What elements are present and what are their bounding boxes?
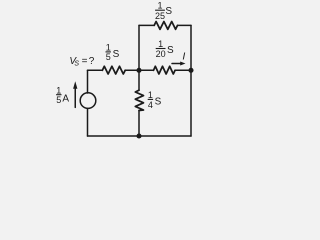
resistor 1/20 S (horizontal zigzag): [154, 66, 176, 74]
svg-text:A: A: [62, 93, 69, 104]
label Vs = ?: [69, 56, 94, 67]
label 1/5 S (value of R1): [106, 43, 120, 62]
svg-text:1: 1: [148, 90, 153, 100]
resistor 1/5 S (horizontal zigzag): [102, 66, 125, 74]
wire left vertical upper (source top lead): [87, 70, 89, 93]
node C junction dot (bottom): [136, 133, 141, 138]
svg-text:5: 5: [56, 95, 61, 105]
svg-text:S: S: [74, 61, 79, 68]
wire middle horizontal between node A and R(1/20): [139, 69, 154, 71]
current source I1 (1/5 A) circle: [80, 93, 96, 109]
current I arrow (pointing right): [172, 62, 186, 66]
wire middle branch lower lead: [138, 111, 140, 137]
svg-text:20: 20: [156, 49, 166, 59]
svg-text:S: S: [155, 97, 162, 108]
wire top-loop horizontal right segment: [178, 24, 192, 26]
wire right vertical lower (node B to bottom): [190, 70, 192, 136]
wire bottom horizontal: [88, 135, 192, 137]
wire top-loop horizontal left segment: [139, 24, 154, 26]
svg-text:25: 25: [155, 11, 165, 21]
label 1/20 S (value of R2): [156, 39, 174, 59]
svg-text:1: 1: [158, 39, 163, 49]
wire left vertical lower (source bottom lead): [87, 109, 89, 137]
current direction arrow (pointing up): [73, 81, 77, 107]
svg-text:?: ?: [89, 56, 95, 67]
node A junction dot: [136, 68, 141, 73]
label 1/25 S (value of top resistor): [155, 1, 172, 22]
wire middle branch upper lead: [138, 70, 140, 90]
wire middle horizontal left segment: [88, 69, 103, 71]
svg-text:=: =: [82, 56, 88, 67]
svg-text:S: S: [167, 45, 174, 56]
svg-text:I: I: [182, 51, 185, 63]
node B junction dot: [188, 68, 193, 73]
wire middle horizontal between R(1/5) and node A: [125, 69, 139, 71]
label 1/4 S (value of R3): [148, 90, 162, 110]
svg-text:1: 1: [56, 85, 61, 95]
resistor 1/25 S (horizontal zigzag, top): [154, 22, 177, 30]
svg-text:1: 1: [157, 1, 162, 11]
svg-text:5: 5: [106, 52, 111, 62]
label 1/5 A (source value): [56, 85, 69, 105]
wire right vertical (top loop down to node B): [190, 25, 192, 70]
svg-text:S: S: [113, 49, 120, 60]
wire top-loop left vertical (node A up): [138, 25, 140, 70]
resistor 1/4 S (vertical zigzag): [135, 90, 143, 110]
wire middle horizontal between R(1/20) and node B: [175, 69, 191, 71]
svg-text:4: 4: [148, 100, 153, 110]
svg-text:S: S: [165, 6, 172, 17]
